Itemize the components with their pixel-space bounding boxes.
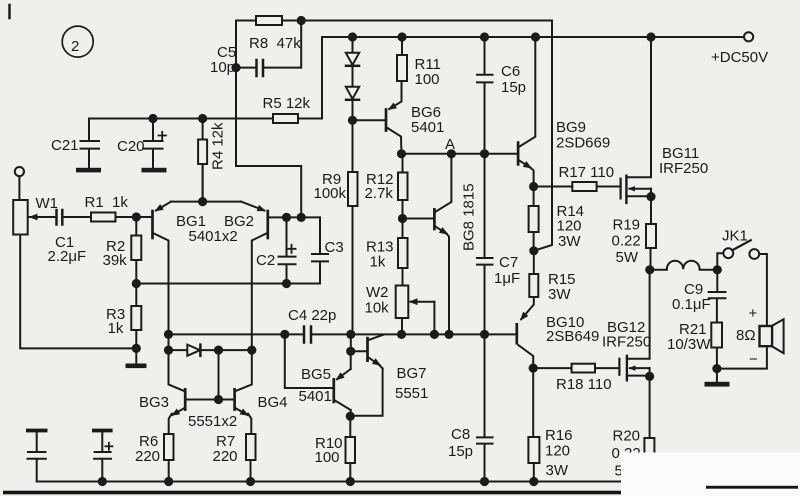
MOSFET BG11 IRF250	[621, 37, 709, 203]
svg-text:C2: C2	[256, 252, 275, 269]
svg-text:120: 120	[545, 443, 570, 460]
diode of current mirror	[187, 345, 200, 356]
transistor BG7 (NPN 5551)	[368, 335, 429, 402]
resistor R7 220	[213, 433, 256, 482]
supply filter capacitor (left) with ground top	[26, 429, 48, 482]
node junction R1/R2/BG1 base	[132, 212, 141, 221]
resistor R11 100	[397, 37, 441, 88]
wire: main ground line	[37, 481, 620, 483]
wire: R2/R3/C2 bottom line	[136, 283, 320, 285]
svg-text:BG7: BG7	[397, 365, 427, 382]
svg-text:5401: 5401	[411, 119, 444, 136]
node junction BG12 source	[645, 372, 654, 381]
node junction C2 top	[282, 213, 291, 222]
node junction ground / R6	[164, 477, 173, 486]
potentiometer W1	[13, 195, 58, 235]
node junction BG10 collector / R18 / R16	[529, 364, 538, 373]
capacitor C5 10p	[210, 44, 263, 76]
capacitor C6 15p	[477, 37, 526, 154]
svg-text:5W: 5W	[616, 249, 639, 266]
resistor R20 0.22 5W (partly hidden)	[612, 376, 655, 479]
node junction BG5 collector / BG7 emitter / R10	[346, 412, 355, 421]
svg-text:15p: 15p	[501, 79, 526, 96]
svg-text:C6: C6	[501, 63, 520, 80]
svg-text:+: +	[749, 305, 758, 322]
svg-text:1k: 1k	[108, 320, 124, 337]
svg-text:10p: 10p	[210, 59, 235, 76]
svg-text:C4 22p: C4 22p	[288, 307, 336, 324]
node junction BG5 base drop	[280, 330, 289, 339]
node junction mirror right / BG2 collector	[247, 346, 256, 355]
node junction R21 / speaker return	[712, 364, 721, 373]
svg-text:3W: 3W	[546, 462, 569, 479]
transistor BG2 (PNP 5401)	[224, 202, 268, 238]
capacitor C20 electrolytic	[117, 119, 167, 173]
transistor BG3 (NPN 5551)	[139, 350, 235, 434]
resistor R14 120 3W	[529, 187, 584, 251]
switch JK1	[717, 228, 767, 327]
node junction diodes/BG6 base/R9	[348, 116, 357, 125]
svg-text:BG8 1815: BG8 1815	[461, 183, 478, 251]
wire: +50V rail	[322, 36, 744, 38]
node junction BG9 emitter / R17 / R14	[529, 182, 538, 191]
wire: +50V rail left drop to R5	[321, 37, 323, 119]
node junction C5 left	[231, 63, 240, 72]
svg-text:C3: C3	[325, 239, 344, 256]
svg-text:BG3: BG3	[139, 394, 169, 411]
svg-text:+DC50V: +DC50V	[711, 49, 768, 66]
svg-text:C20: C20	[117, 138, 145, 155]
resistor R13 1k	[366, 219, 408, 286]
resistor R10 100	[315, 435, 356, 482]
svg-text:W2: W2	[366, 284, 389, 301]
wire: diode line of current mirror	[169, 350, 252, 399]
svg-text:C8: C8	[451, 426, 470, 443]
svg-text:−: −	[749, 351, 758, 368]
wire: BG8 base	[403, 218, 434, 220]
wire: R9 bottom to C4 node	[351, 206, 353, 334]
svg-text:R4 12k: R4 12k	[210, 122, 227, 170]
svg-text:BG9: BG9	[556, 119, 586, 136]
transistor BG8 (NPN 1815, rotated label)	[434, 154, 477, 335]
bottom border line right segment	[706, 486, 798, 489]
wire: input stage output line with C4 to VAS	[169, 333, 517, 335]
node junction ground / R16	[529, 477, 538, 486]
svg-text:1k: 1k	[370, 254, 386, 271]
wire: BG7 base / BG5 emitter node	[351, 334, 367, 369]
figure number 2	[62, 26, 93, 57]
node junction W2 wiper drop	[430, 330, 439, 339]
wire: BG6 base from diode column	[353, 119, 385, 121]
supply filter capacitor electrolytic (right) with ground top	[92, 429, 113, 482]
svg-text:2: 2	[71, 38, 79, 55]
wire: BG2 collector column down to mirror output	[252, 234, 266, 351]
wire: BG5 collector / BG7 emitter to R10	[350, 369, 382, 438]
capacitor C21	[51, 119, 101, 173]
node junction bias line / C20	[148, 114, 157, 123]
node junction BG8 collector	[447, 149, 456, 158]
capacitor C2 electrolytic	[256, 217, 296, 283]
svg-text:0.22: 0.22	[612, 233, 641, 250]
resistor R15 3W	[521, 251, 575, 319]
svg-text:5401x2: 5401x2	[189, 228, 238, 245]
node junction coil / JK1 / C9	[713, 265, 722, 274]
node junction C2 bottom	[282, 279, 291, 288]
node junction mirror left	[164, 346, 173, 355]
svg-text:BG4: BG4	[258, 394, 288, 411]
node junction BG11 source	[646, 192, 655, 201]
svg-text:JK1: JK1	[722, 228, 748, 245]
capacitor C7 1uF	[477, 154, 520, 335]
svg-text:8Ω: 8Ω	[736, 327, 756, 344]
MOSFET BG12 IRF250	[602, 270, 651, 381]
diode D2 (bias chain)	[346, 87, 359, 121]
svg-text:C21: C21	[51, 137, 79, 154]
svg-text:10k: 10k	[365, 300, 390, 317]
transistor BG5 (PNP 5401)	[285, 334, 351, 410]
svg-text:5401: 5401	[299, 388, 332, 405]
transistor BG10 (PNP 2SB649)	[517, 314, 600, 368]
node junction rail/R11	[397, 32, 406, 41]
node junction rail/diodes	[348, 32, 357, 41]
svg-text:2SD669: 2SD669	[556, 135, 610, 152]
wire: R8/C5 left node riser and BG2 base feedback path	[236, 21, 301, 218]
resistor R16 120 3W	[528, 368, 572, 481]
resistor R18 110	[533, 364, 617, 393]
node junction BG7 base	[346, 347, 355, 356]
svg-text:R16: R16	[545, 427, 573, 444]
resistor R19 0.22 5W	[612, 197, 657, 270]
svg-text:15p: 15p	[448, 443, 473, 460]
resistor R9 100k	[314, 120, 358, 206]
ground symbol input stage	[126, 348, 147, 368]
svg-text:220: 220	[135, 448, 160, 465]
speaker 8 ohm	[717, 305, 784, 369]
resistor R6 220	[135, 433, 174, 482]
wire: BG1 collector column down to mirror	[154, 234, 169, 351]
output coil	[650, 261, 718, 270]
node junction ground / filter cap2	[98, 477, 107, 486]
label 5401x2 for BG1/BG2	[189, 228, 238, 245]
svg-text:R8 47k: R8 47k	[249, 35, 301, 52]
svg-text:0.1μF: 0.1μF	[672, 296, 711, 313]
node junction output / R19 / BG12 drain / coil	[645, 265, 654, 274]
svg-text:5551: 5551	[395, 385, 428, 402]
svg-text:2.2μF: 2.2μF	[48, 248, 87, 265]
node junction rail/C6	[480, 32, 489, 41]
wire: BG2 base line to C2/C3	[269, 216, 320, 218]
transistor BG9 (NPN 2SD669)	[518, 37, 610, 187]
svg-text:220: 220	[213, 448, 238, 465]
node junction mirror bases	[214, 346, 223, 355]
capacitor C9 0.1uF	[672, 270, 726, 323]
transistor BG1 (PNP 5401)	[153, 202, 207, 238]
svg-text:5551x2: 5551x2	[188, 413, 237, 430]
resistor R1 1k	[85, 194, 129, 222]
svg-text:100: 100	[315, 449, 340, 466]
node junction line start at BG1 collector column	[164, 330, 173, 339]
svg-text:1μF: 1μF	[494, 270, 520, 287]
input terminal	[15, 167, 24, 200]
node junction at R8 right / C5 riser	[297, 16, 306, 25]
node junction R14/R15/feedback	[529, 246, 538, 255]
scan mark top left	[8, 5, 11, 18]
svg-text:IRF250: IRF250	[659, 160, 708, 177]
svg-text:R17 110: R17 110	[559, 164, 615, 181]
svg-text:100: 100	[415, 71, 440, 88]
node junction feedback at BG2 base line	[297, 213, 306, 222]
node junction bias line / R4	[198, 114, 207, 123]
svg-text:R20: R20	[613, 428, 641, 445]
white patch covering bottom right	[621, 453, 800, 496]
node A label	[445, 136, 455, 153]
capacitor C8 15p	[448, 334, 493, 481]
wire: feedback column down to R14/R15 junction	[534, 21, 552, 251]
node junction R12/R13/BG8 base	[398, 214, 407, 223]
wire: top feedback rail from R8/C5 node to output column	[236, 20, 552, 22]
capacitor C4 22p	[288, 307, 336, 343]
svg-text:10/3W: 10/3W	[667, 336, 711, 353]
node junction rail/BG9 collector	[531, 32, 540, 41]
svg-text:2.7k: 2.7k	[365, 185, 394, 202]
resistor R2 39k	[103, 217, 142, 284]
label 5551x2 for BG3/BG4	[188, 413, 237, 430]
svg-text:R1 1k: R1 1k	[85, 194, 129, 211]
svg-text:R19: R19	[613, 217, 641, 234]
svg-text:120: 120	[557, 218, 582, 235]
bottom border line	[3, 491, 621, 495]
resistor R8 47k	[249, 16, 301, 52]
svg-text:39k: 39k	[103, 252, 128, 269]
node junction BG6 collector / R12	[397, 149, 406, 158]
svg-text:3W: 3W	[548, 286, 571, 303]
svg-text:W1: W1	[36, 195, 59, 212]
resistor R21 10/3W	[667, 321, 722, 369]
node junction ground / R7	[246, 477, 255, 486]
diode D1 (bias chain)	[346, 37, 359, 87]
node junction R3 bottom / ground	[132, 344, 141, 353]
wire: emitter bus of BG1/BG2 with R4 tail	[171, 164, 241, 202]
resistor R5 12k	[263, 95, 311, 123]
wire: node A line BG6 collector to BG9 base	[402, 153, 517, 155]
node junction C6/C7 column	[480, 149, 489, 158]
node junction R2/R3	[132, 279, 141, 288]
svg-text:2SB649: 2SB649	[546, 328, 599, 345]
svg-text:C7: C7	[499, 254, 518, 271]
svg-text:R5 12k: R5 12k	[263, 95, 311, 112]
wire: W1 bottom return to ground node	[20, 235, 136, 349]
node junction rail/BG11 drain	[646, 32, 655, 41]
ground symbol output	[705, 369, 730, 387]
wire: filtered bias line C21/C20/R4 to R5	[89, 118, 322, 120]
transistor BG6 (PNP 5401)	[386, 81, 444, 154]
node junction C4/R9/BG7 base	[346, 330, 355, 339]
node junction ground / C8	[480, 477, 489, 486]
transistor BG4 (NPN 5551)	[235, 350, 288, 434]
node junction BG3/BG4 bases	[214, 395, 223, 404]
power terminal +DC50V	[711, 32, 768, 66]
node junction BG8 emitter	[444, 330, 453, 339]
capacitor C1 2.2uF	[48, 210, 87, 265]
svg-text:100k: 100k	[314, 185, 347, 202]
svg-text:IRF250: IRF250	[602, 334, 651, 351]
node junction R4 / emitters	[198, 197, 207, 206]
capacitor C3	[312, 217, 344, 283]
resistor R12 2.7k	[365, 154, 408, 219]
svg-text:R18 110: R18 110	[556, 376, 612, 393]
potentiometer W2 10k	[365, 284, 435, 334]
node junction W2 bottom	[397, 330, 406, 339]
svg-text:BG5: BG5	[301, 366, 331, 383]
node junction ground / R10	[346, 477, 355, 486]
resistor R17 110	[534, 164, 619, 191]
wire: input base line W1 wiper to BG1 base	[28, 216, 152, 218]
svg-text:3W: 3W	[558, 233, 581, 250]
resistor R3 1k	[106, 284, 141, 349]
resistor R4 12k (vertical, rotated label)	[198, 119, 226, 202]
node junction C7/C8 column	[480, 330, 489, 339]
